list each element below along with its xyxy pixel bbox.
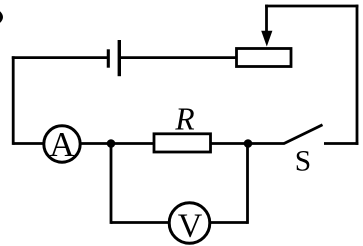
rheostat wiper arrowhead bbox=[261, 31, 272, 47]
rheostat body bbox=[237, 49, 292, 67]
rheostat wiper stem bbox=[265, 5, 268, 36]
svg-text:S: S bbox=[295, 145, 311, 177]
svg-text:V: V bbox=[178, 208, 203, 245]
figure label fragment (cropped paren) bbox=[0, 11, 3, 23]
wire: right vertical bbox=[356, 5, 359, 145]
node 1 (junction dot) bbox=[107, 139, 116, 148]
svg-text:R: R bbox=[174, 101, 194, 136]
wire: left vertical bbox=[12, 56, 15, 145]
wire: resistor to node 2 and switch bbox=[211, 142, 285, 145]
ammeter A1 body bbox=[44, 126, 80, 162]
wire: voltmeter branch bottom right bbox=[210, 221, 248, 224]
wire: left vertical to ammeter bbox=[13, 142, 44, 145]
wire: switch right contact bbox=[324, 142, 358, 145]
wire: top horizontal bbox=[265, 5, 358, 8]
wire: battery left segment bbox=[12, 56, 108, 59]
voltmeter V1 body bbox=[169, 203, 210, 244]
svg-text:A: A bbox=[49, 125, 75, 164]
battery short plate (negative) bbox=[107, 49, 110, 67]
wire: ammeter to node 1 and resistor bbox=[80, 142, 154, 145]
wire: voltmeter branch bottom left bbox=[111, 221, 169, 224]
wire: voltmeter branch left vertical bbox=[110, 144, 113, 224]
resistor R body bbox=[154, 134, 211, 152]
wire: voltmeter branch right vertical bbox=[246, 144, 249, 224]
battery long plate (positive) bbox=[118, 40, 121, 76]
switch lever bbox=[284, 125, 323, 144]
wire: battery to rheostat bbox=[119, 56, 236, 59]
node 2 (junction dot) bbox=[244, 139, 253, 148]
